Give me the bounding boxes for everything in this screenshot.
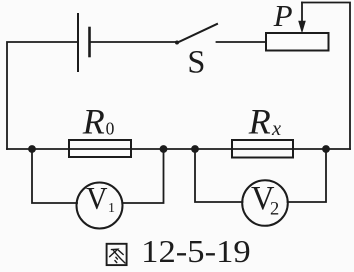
wiper arrow shaft xyxy=(301,3,303,24)
battery E short plate xyxy=(88,28,91,56)
wire left rail xyxy=(7,42,78,149)
svg-text:R: R xyxy=(248,102,271,142)
resistor Rx body xyxy=(232,140,293,158)
svg-text:P: P xyxy=(273,0,293,33)
svg-text:S: S xyxy=(187,45,205,81)
wire switch to potentiometer xyxy=(217,41,267,43)
voltmeter V1 circle xyxy=(77,183,123,229)
node dot left of R0 xyxy=(28,145,36,153)
svg-text:0: 0 xyxy=(106,119,115,139)
wiper arrowhead xyxy=(298,21,306,34)
wire V2 right lead xyxy=(288,149,327,202)
svg-text:x: x xyxy=(271,118,281,140)
switch S blade xyxy=(177,24,218,43)
wire V1 right lead xyxy=(123,149,164,203)
voltmeter V2 circle xyxy=(242,180,288,226)
potentiometer P body xyxy=(266,33,329,51)
svg-text:V: V xyxy=(86,180,108,216)
wire V1 left lead xyxy=(32,149,77,203)
resistor R0 body xyxy=(69,140,131,157)
wire V2 left lead xyxy=(195,149,243,202)
node dot right of R0 xyxy=(160,145,168,153)
svg-text:2: 2 xyxy=(270,200,279,220)
node dot right of Rx xyxy=(322,145,330,153)
caption hanzi tu (drawn) xyxy=(107,244,127,265)
wire wiper to right rail xyxy=(302,3,350,150)
svg-text:1: 1 xyxy=(108,201,115,216)
svg-text:12-5-19: 12-5-19 xyxy=(141,233,251,269)
node dot left of Rx xyxy=(191,145,199,153)
wire middle bus xyxy=(7,148,350,150)
battery E long plate xyxy=(77,14,79,71)
svg-text:R: R xyxy=(82,102,105,142)
wire battery to switch xyxy=(90,41,177,43)
switch pivot contact xyxy=(175,41,179,45)
